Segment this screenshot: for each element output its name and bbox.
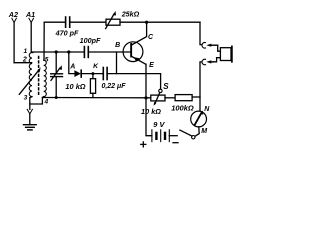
wire to ground (29, 114, 31, 125)
node emitter-rail junction (144, 96, 147, 99)
wire A2 to tap 2 (14, 62, 32, 64)
svg-text:A1: A1 (25, 10, 35, 19)
svg-text:9 V: 9 V (153, 120, 165, 129)
capacitor 100pF (84, 47, 88, 58)
node collector junction (145, 21, 148, 24)
capacitor 470pF (66, 17, 70, 27)
wire right rail down to upper jack contact (200, 22, 202, 44)
wire top rail left (44, 21, 65, 23)
svg-text:B: B (115, 42, 120, 49)
wire primary bottom to ground (30, 97, 32, 110)
svg-text:470 pF: 470 pF (55, 28, 79, 37)
wire pot to right corner (120, 21, 200, 23)
svg-text:1: 1 (23, 48, 27, 55)
switch lever (180, 130, 192, 136)
wire base riser (116, 52, 118, 74)
wire bottom rail (42, 97, 150, 99)
svg-text:10 kΩ: 10 kΩ (141, 107, 161, 116)
ground (24, 125, 37, 130)
wire 470pF to pot (70, 21, 106, 23)
label minus (173, 142, 178, 144)
svg-text:100pF: 100pF (80, 36, 101, 45)
wire collector riser (132, 22, 147, 45)
node varcap bottom (55, 96, 58, 99)
jack upper contact (202, 43, 218, 49)
svg-text:2: 2 (22, 56, 27, 63)
capacitor 0.22uF (103, 68, 107, 80)
node 10k top (91, 72, 94, 75)
wire emitter rail to switch (107, 74, 161, 89)
svg-text:S: S (163, 82, 169, 91)
svg-text:0,22 μF: 0,22 μF (101, 83, 126, 90)
antenna A1 (29, 18, 34, 52)
node varcap junction (55, 50, 58, 53)
battery 9V (152, 130, 169, 142)
potentiometer 25k (106, 11, 120, 29)
svg-text:E: E (149, 62, 154, 69)
potentiometer 10k (151, 93, 165, 106)
switch S contact (159, 89, 162, 92)
capacitor variable C1 (51, 65, 63, 80)
wire battery minus (169, 135, 177, 137)
svg-text:A: A (69, 64, 75, 71)
wire 100pF to base (88, 51, 130, 53)
wire pot to 100k (165, 97, 175, 99)
transistor Q1 (123, 42, 146, 64)
wire lower contact down right rail (200, 62, 202, 111)
jack lower contact (202, 59, 213, 65)
svg-text:M: M (201, 128, 207, 135)
inductor tuning arrow (19, 67, 40, 94)
wire diode to cap (81, 73, 103, 75)
svg-text:A2: A2 (8, 10, 18, 19)
svg-text:4: 4 (43, 99, 48, 106)
wire tap3 to tap4 jog (30, 97, 44, 104)
wire 100k to right rail (192, 96, 200, 98)
earth arrow (27, 109, 32, 114)
label plus (141, 142, 146, 147)
switch M contact (192, 136, 195, 139)
node diode junction (67, 50, 70, 53)
wire emitter down to battery (146, 64, 152, 136)
svg-text:100kΩ: 100kΩ (171, 104, 194, 113)
wire varcap riser bottom (55, 77, 57, 98)
wire base rail left (31, 51, 84, 53)
svg-text:25kΩ: 25kΩ (121, 10, 140, 19)
wire riser tap5 to 470pF (43, 22, 45, 60)
wire diode riser (69, 52, 75, 74)
wire lower contact into plug (213, 58, 220, 62)
transformer core (38, 57, 40, 97)
wire upper contact into plug (218, 45, 221, 51)
antenna A2 (12, 18, 17, 63)
meter M (191, 110, 207, 127)
wire varcap riser top (55, 52, 57, 74)
svg-text:3: 3 (24, 95, 28, 102)
phone plug (220, 46, 232, 61)
resistor 10k vertical (90, 74, 95, 98)
svg-text:5: 5 (45, 56, 49, 63)
transformer T1 secondary (44, 60, 47, 96)
transformer T1 primary (29, 52, 32, 96)
diode D1 (74, 70, 81, 77)
resistor 100k (175, 95, 192, 101)
wire meter bottom to switch contact (195, 127, 199, 136)
svg-text:10 kΩ: 10 kΩ (65, 82, 85, 91)
